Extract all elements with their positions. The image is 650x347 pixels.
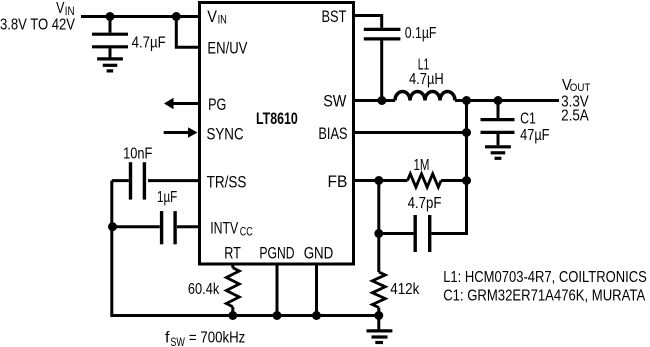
svg-text:2.5A: 2.5A <box>561 108 589 125</box>
svg-text:4.7µH: 4.7µH <box>409 71 444 88</box>
svg-text:f: f <box>165 329 170 346</box>
svg-text:10nF: 10nF <box>123 146 152 163</box>
svg-text:CC: CC <box>240 227 253 239</box>
svg-text:V: V <box>207 7 217 26</box>
svg-text:TR/SS: TR/SS <box>207 172 247 191</box>
svg-text:PG: PG <box>208 95 226 114</box>
svg-text:PGND: PGND <box>259 244 294 263</box>
svg-text:RT: RT <box>224 244 241 263</box>
svg-text:OUT: OUT <box>570 82 591 94</box>
svg-text:L1: HCM0703-4R7, COILTRONICS: L1: HCM0703-4R7, COILTRONICS <box>443 269 647 286</box>
svg-text:SW: SW <box>323 91 346 110</box>
svg-text:BIAS: BIAS <box>318 124 347 143</box>
svg-text:IN: IN <box>218 14 227 26</box>
svg-text:4.7µF: 4.7µF <box>132 34 166 51</box>
svg-text:412k: 412k <box>390 281 420 298</box>
svg-text:= 700kHz: = 700kHz <box>189 329 245 346</box>
svg-text:4.7pF: 4.7pF <box>408 195 442 212</box>
svg-text:BST: BST <box>322 7 347 26</box>
svg-text:GND: GND <box>304 244 334 263</box>
svg-text:INTV: INTV <box>210 218 238 237</box>
svg-text:0.1µF: 0.1µF <box>405 25 437 42</box>
svg-text:LT8610: LT8610 <box>256 109 298 128</box>
svg-text:3.8V TO 42V: 3.8V TO 42V <box>0 17 75 34</box>
svg-text:47µF: 47µF <box>520 127 550 144</box>
svg-text:60.4k: 60.4k <box>188 281 220 298</box>
svg-text:1µF: 1µF <box>157 189 177 206</box>
svg-text:V: V <box>56 0 65 17</box>
svg-text:C1: C1 <box>520 110 536 127</box>
svg-text:SYNC: SYNC <box>207 125 244 144</box>
svg-text:EN/UV: EN/UV <box>207 39 247 58</box>
svg-text:SW: SW <box>170 337 185 347</box>
svg-text:FB: FB <box>328 172 348 191</box>
svg-text:1M: 1M <box>414 157 430 174</box>
svg-text:C1: GRM32ER71A476K, MURATA: C1: GRM32ER71A476K, MURATA <box>443 287 645 304</box>
